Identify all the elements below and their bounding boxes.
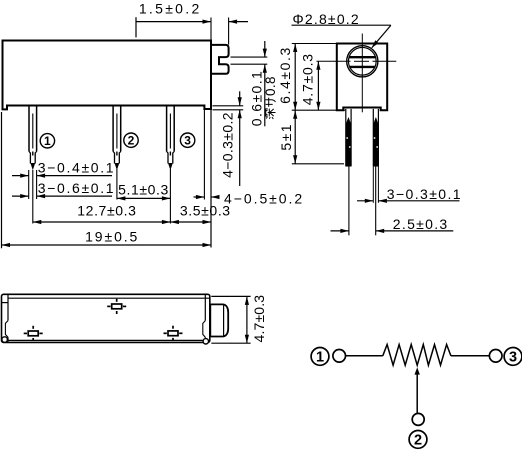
svg-text:1.5±0.2: 1.5±0.2: [139, 0, 202, 16]
svg-text:5±1: 5±1: [278, 123, 294, 151]
svg-text:0.6±0.1: 0.6±0.1: [248, 70, 264, 126]
svg-text:6.4±0.3: 6.4±0.3: [277, 46, 293, 104]
svg-text:1: 1: [316, 350, 324, 366]
svg-text:3: 3: [509, 350, 517, 366]
svg-text:3: 3: [184, 134, 191, 148]
svg-text:3−0.6±0.1: 3−0.6±0.1: [38, 180, 115, 196]
svg-text:4−0.3±0.2: 4−0.3±0.2: [219, 112, 235, 178]
svg-text:2: 2: [128, 134, 135, 148]
svg-text:0.8: 0.8: [263, 76, 278, 96]
svg-text:3−0.3±0.1: 3−0.3±0.1: [387, 186, 462, 202]
svg-text:3−0.4±0.1: 3−0.4±0.1: [38, 159, 115, 175]
svg-text:5.1±0.3: 5.1±0.3: [118, 181, 169, 197]
svg-text:19±0.5: 19±0.5: [85, 228, 139, 244]
svg-text:2: 2: [414, 433, 422, 449]
svg-text:4.7±0.3: 4.7±0.3: [251, 295, 267, 343]
svg-text:12.7±0.3: 12.7±0.3: [77, 202, 136, 218]
svg-text:4−0.5±0.2: 4−0.5±0.2: [224, 190, 304, 206]
svg-text:1: 1: [44, 134, 51, 148]
svg-text:4.7±0.3: 4.7±0.3: [300, 53, 316, 105]
svg-text:2.5±0.3: 2.5±0.3: [393, 216, 449, 232]
